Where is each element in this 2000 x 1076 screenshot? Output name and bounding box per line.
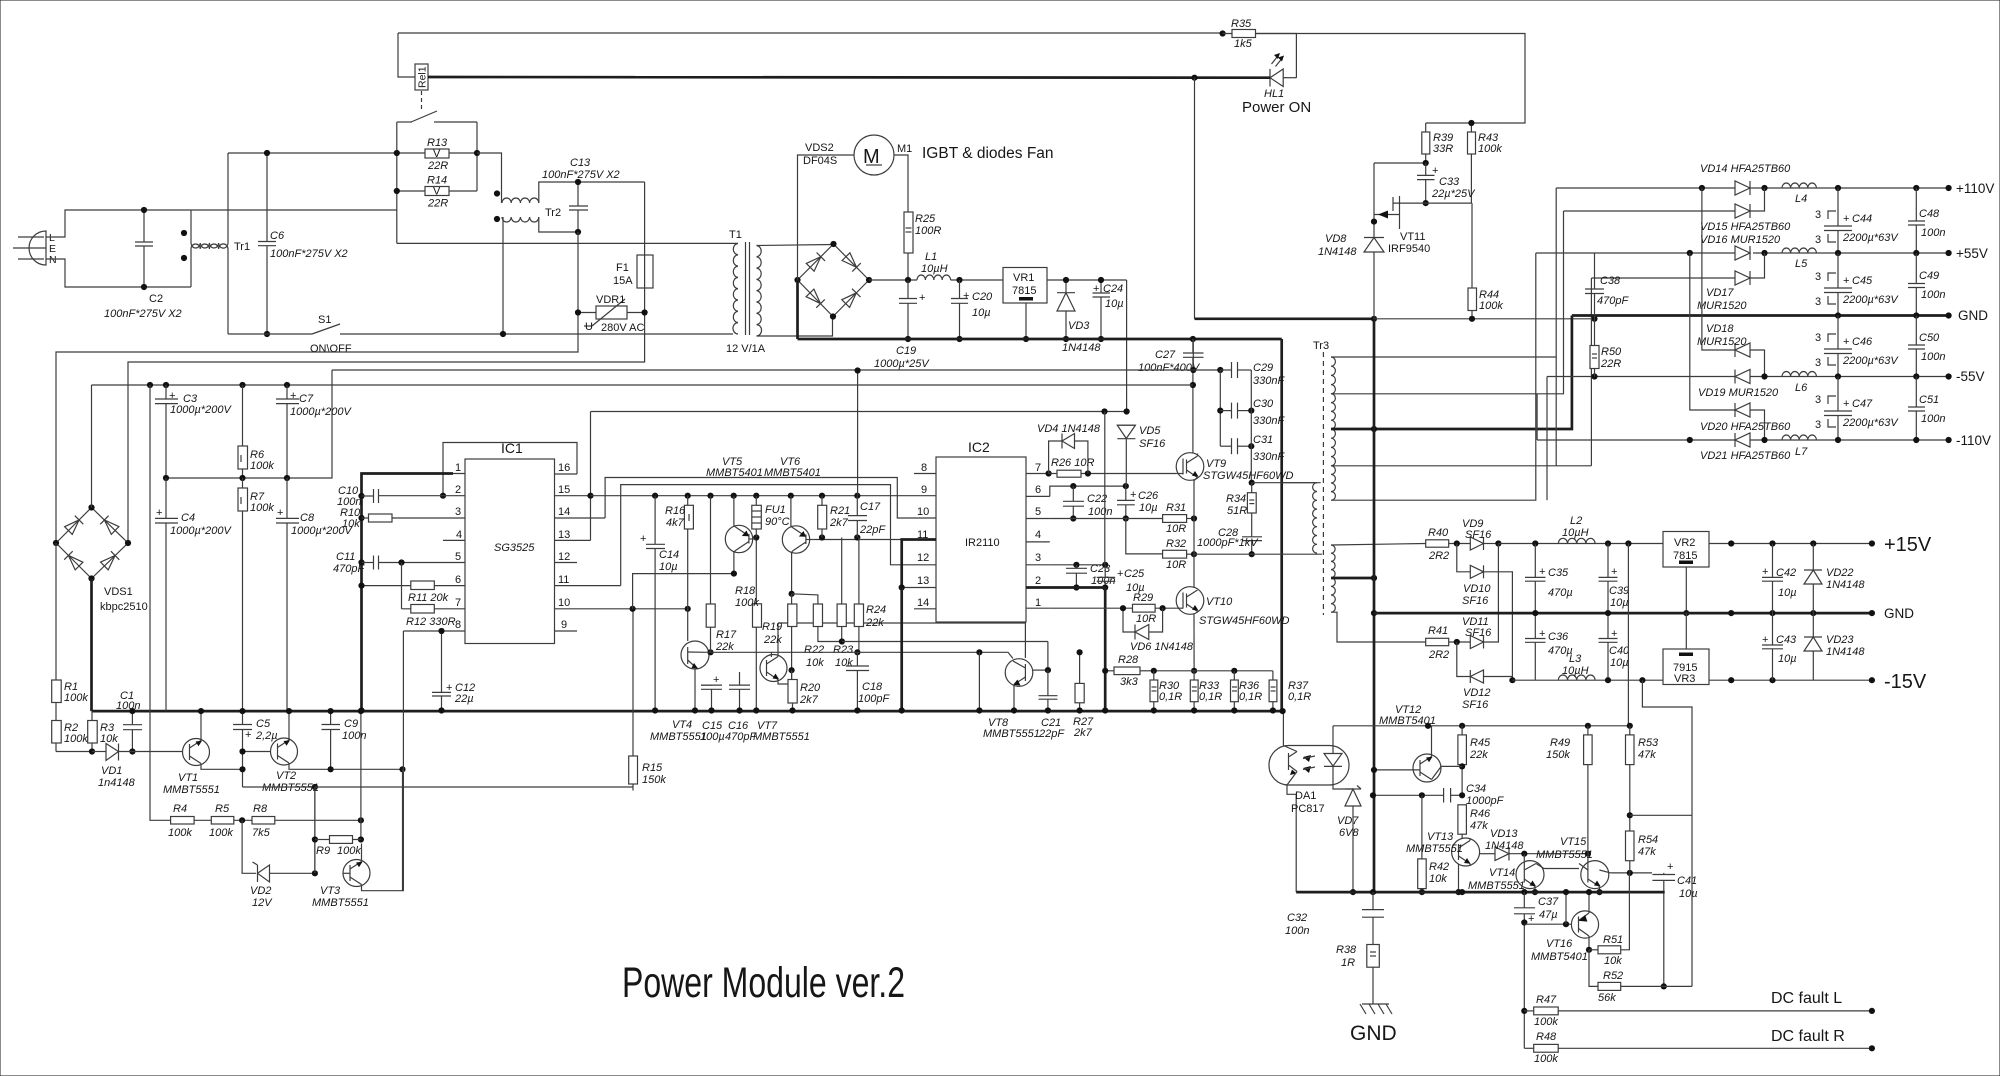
svg-text:C47: C47	[1852, 398, 1873, 410]
wire +12V rail y495.7 dots	[652, 493, 658, 499]
svg-text:VT9: VT9	[1206, 458, 1226, 470]
wire mains L upper rail	[191, 153, 397, 210]
svg-text:1R: 1R	[1341, 957, 1355, 969]
svg-text:22µ: 22µ	[454, 693, 474, 705]
svg-text:R17: R17	[716, 629, 737, 641]
svg-text:VD5: VD5	[1139, 425, 1161, 437]
svg-text:1k5: 1k5	[1234, 38, 1253, 50]
LED HL1	[1264, 53, 1296, 100]
svg-text:FU1: FU1	[765, 504, 786, 516]
wire R32 node to Tr3 primary bottom	[1194, 553, 1322, 555]
transistor VT16	[1524, 889, 1598, 963]
svg-text:DA1: DA1	[1295, 790, 1316, 802]
svg-text:VDS1: VDS1	[104, 586, 133, 598]
capacitor C22	[1063, 486, 1112, 522]
svg-text:13: 13	[917, 575, 929, 587]
capacitor C18	[846, 652, 890, 713]
svg-text:1000µ*200V: 1000µ*200V	[170, 525, 232, 537]
varistor VDR1	[575, 294, 648, 334]
IGBT VT9	[1176, 453, 1293, 482]
svg-text:S1: S1	[318, 314, 331, 326]
optocoupler DA1 PC817	[1269, 746, 1349, 816]
svg-text:C26: C26	[1138, 490, 1159, 502]
svg-text:4k7: 4k7	[666, 517, 685, 529]
svg-text:1N4148: 1N4148	[1062, 342, 1101, 354]
svg-text:22pF: 22pF	[859, 524, 886, 536]
svg-text:R48: R48	[1536, 1031, 1557, 1043]
IC1 pin stubs left	[362, 474, 466, 632]
svg-text:R52: R52	[1603, 970, 1623, 982]
diode VD23	[1804, 613, 1865, 680]
svg-text:VD6 1N4148: VD6 1N4148	[1130, 641, 1194, 653]
svg-text:2200µ*63V: 2200µ*63V	[1842, 355, 1899, 367]
svg-text:Tr3: Tr3	[1313, 340, 1329, 352]
svg-text:GND: GND	[1350, 1022, 1397, 1045]
svg-text:+: +	[169, 390, 175, 402]
svg-text:10µ: 10µ	[1610, 657, 1629, 669]
wire DA1 emitter down	[1287, 785, 1296, 794]
transistor VT7	[753, 623, 810, 743]
svg-text:+: +	[290, 390, 296, 402]
svg-text:C50: C50	[1919, 332, 1940, 344]
svg-text:C48: C48	[1919, 208, 1940, 220]
svg-text:C38: C38	[1600, 275, 1621, 287]
wire Tr3 secondary center tap thick	[1331, 316, 1572, 430]
svg-text:VDS2: VDS2	[805, 142, 834, 154]
wire R22/R23 bottoms to VT8 collector	[842, 641, 1048, 643]
svg-text:Rel1: Rel1	[417, 66, 429, 88]
diode VD4	[1037, 423, 1101, 474]
svg-text:C41: C41	[1677, 875, 1697, 887]
diode VD12	[1457, 642, 1516, 711]
transistor VT6	[782, 496, 813, 594]
resistor R46	[1458, 805, 1491, 839]
svg-text:14: 14	[917, 597, 929, 609]
transformer Tr2 (common-mode choke)	[494, 190, 561, 222]
wire thick link to GND vertical	[1195, 317, 1375, 320]
svg-text:PC817: PC817	[1291, 803, 1325, 815]
wire C11 node to pin7	[401, 563, 403, 609]
svg-text:+: +	[1843, 213, 1849, 225]
svg-text:7: 7	[1035, 462, 1041, 474]
transistor VT3	[312, 631, 403, 909]
diode VD8	[1318, 233, 1384, 319]
wire +55V rail	[1536, 252, 1949, 254]
svg-text:4: 4	[1035, 529, 1041, 541]
svg-text:10µH: 10µH	[921, 263, 948, 275]
svg-text:Power ON: Power ON	[1242, 99, 1311, 116]
svg-text:R13: R13	[427, 137, 448, 149]
capacitor C1	[116, 690, 142, 755]
svg-text:R34: R34	[1226, 493, 1246, 505]
svg-text:R4: R4	[173, 803, 187, 815]
wire Tr3 secondary tap4	[1331, 278, 1591, 466]
svg-text:VD2: VD2	[250, 885, 271, 897]
resistor R7	[238, 478, 274, 711]
svg-text:+: +	[1130, 489, 1136, 501]
svg-text:IC2: IC2	[968, 439, 990, 455]
svg-text:150k: 150k	[642, 774, 666, 786]
svg-text:MUR1520: MUR1520	[1697, 336, 1747, 348]
capacitor C20	[951, 280, 993, 342]
inductor L4	[1782, 183, 1816, 205]
wire C5 to VD2 row	[243, 787, 315, 873]
svg-text:MMBT5551: MMBT5551	[262, 782, 319, 794]
svg-text:0,1R: 0,1R	[1199, 691, 1222, 703]
transistor VT4	[650, 641, 714, 743]
transistor VT14	[1468, 854, 1579, 896]
svg-text:IRF9540: IRF9540	[1388, 243, 1430, 255]
capacitor C23	[1066, 563, 1115, 591]
svg-text:C42: C42	[1776, 567, 1796, 579]
wire -15V rail	[1512, 679, 1872, 681]
svg-text:R15: R15	[642, 762, 663, 774]
svg-text:+: +	[245, 729, 251, 741]
svg-text:V: V	[433, 148, 441, 160]
resistor R35	[1220, 18, 1256, 50]
svg-text:VD3: VD3	[1068, 320, 1090, 332]
resistor R14	[394, 175, 477, 210]
svg-text:R22: R22	[804, 644, 824, 656]
svg-text:22R: 22R	[1600, 358, 1621, 370]
regulator VR3 7915	[1663, 613, 1709, 685]
svg-text:R50: R50	[1601, 346, 1622, 358]
resistor R37	[1269, 671, 1311, 714]
svg-text:VDR1: VDR1	[596, 294, 625, 306]
svg-text:100k: 100k	[1534, 1053, 1558, 1065]
wire DA1 emitter to protection rail	[1295, 794, 1297, 892]
wire +15 riser to protection rail	[1627, 544, 1629, 727]
svg-text:47k: 47k	[1638, 846, 1656, 858]
svg-text:MUR1520: MUR1520	[1697, 300, 1747, 312]
svg-text:4: 4	[456, 529, 462, 541]
resistor R36	[1231, 671, 1263, 714]
diode VD14	[1700, 163, 1791, 195]
svg-text:C37: C37	[1538, 896, 1559, 908]
diode VD19	[1698, 370, 1779, 400]
resistor R2	[52, 703, 89, 752]
diode VD5	[1117, 425, 1166, 486]
svg-text:R9: R9	[316, 845, 330, 857]
svg-text:5: 5	[1035, 506, 1041, 518]
svg-text:470pF: 470pF	[333, 563, 365, 575]
resistor R22	[792, 594, 842, 669]
svg-text:10R: 10R	[1166, 559, 1186, 571]
wire Tr2 leads	[503, 182, 645, 334]
svg-text:+55V: +55V	[1956, 246, 1988, 261]
svg-text:2k7: 2k7	[829, 517, 849, 529]
diode VD18	[1697, 188, 1765, 377]
svg-text:C34: C34	[1466, 783, 1486, 795]
svg-text:10µ: 10µ	[1778, 653, 1797, 665]
svg-text:100n: 100n	[1285, 925, 1309, 937]
svg-text:10: 10	[917, 506, 929, 518]
svg-text:9: 9	[921, 484, 927, 496]
svg-text:VR2: VR2	[1674, 537, 1695, 549]
svg-text:0,1R: 0,1R	[1288, 691, 1311, 703]
wire M1 right to R25	[894, 155, 908, 212]
wire R35 feed corner	[1223, 34, 1525, 124]
svg-text:VD20 HFA25TB60: VD20 HFA25TB60	[1700, 421, 1791, 433]
svg-text:+: +	[919, 292, 925, 304]
resistor R23	[833, 538, 854, 670]
wire bank to Tr2	[477, 153, 502, 203]
capacitor C27	[1138, 339, 1204, 385]
switch S1	[310, 314, 352, 355]
capacitor C17	[848, 496, 886, 538]
capacitor C7	[276, 385, 352, 478]
svg-text:10k: 10k	[835, 657, 853, 669]
wire VDS1 minus thick to GND bus	[90, 579, 93, 712]
capacitor C19	[874, 280, 930, 370]
svg-text:+: +	[1539, 566, 1545, 578]
svg-text:R5: R5	[215, 803, 230, 815]
IC2 right pin stubs	[1026, 474, 1050, 609]
svg-text:1000pF: 1000pF	[1466, 795, 1505, 807]
wire thick relay line y77	[428, 76, 1270, 79]
svg-text:VT15: VT15	[1560, 836, 1587, 848]
resistor R11	[408, 581, 449, 604]
svg-text:100n: 100n	[116, 700, 140, 712]
diode VD22	[1804, 544, 1865, 614]
relay switch contact	[397, 111, 477, 122]
svg-text:VD22: VD22	[1826, 567, 1854, 579]
svg-text:22pF: 22pF	[1038, 728, 1065, 740]
resistor R4	[168, 803, 194, 839]
diode VD1	[92, 744, 183, 790]
svg-text:R25: R25	[915, 213, 936, 225]
svg-text:1000pF*1kV: 1000pF*1kV	[1197, 537, 1259, 549]
wire C13 bottom to lower-left feeder	[56, 232, 578, 543]
wire riser tap -55	[1546, 377, 1548, 501]
diode VD15	[1564, 188, 1792, 233]
svg-text:+: +	[1093, 283, 1099, 295]
svg-text:C24: C24	[1103, 283, 1123, 295]
svg-text:+: +	[640, 533, 646, 545]
mains plug	[13, 231, 46, 265]
inductor L2	[1558, 515, 1595, 544]
svg-text:47k: 47k	[1638, 749, 1656, 761]
wire y318 thin continuation to R44/R50	[1374, 318, 1595, 320]
capacitor C2	[104, 207, 182, 320]
resistor R20	[788, 670, 821, 713]
wire neutral bottom rail to T1	[228, 333, 733, 335]
resistor R27	[1073, 649, 1094, 739]
zener VD7	[1333, 785, 1361, 895]
svg-text:Tr1: Tr1	[234, 241, 250, 253]
svg-text:C30: C30	[1253, 398, 1274, 410]
diode VD21	[1700, 433, 1791, 462]
svg-text:VD15 HFA25TB60: VD15 HFA25TB60	[1700, 221, 1791, 233]
wire VT8 ground drop	[978, 652, 980, 710]
resistor R30	[1150, 671, 1182, 714]
capacitor C45	[1815, 253, 1899, 316]
svg-text:1: 1	[455, 462, 461, 474]
capacitor C4	[155, 478, 232, 711]
wire +12 feed to driver rail	[857, 371, 859, 496]
svg-text:R8: R8	[253, 803, 268, 815]
svg-text:3: 3	[1035, 552, 1041, 564]
svg-text:100nF*275V X2: 100nF*275V X2	[270, 248, 348, 260]
wire R35 right over to HL1	[1256, 34, 1297, 78]
resistor R16	[665, 496, 693, 641]
svg-text:1N4148: 1N4148	[1485, 840, 1524, 852]
capacitor C11	[333, 551, 405, 575]
svg-text:MMBT5401: MMBT5401	[706, 467, 763, 479]
resistor R34	[1226, 483, 1256, 517]
svg-text:33R: 33R	[1433, 143, 1453, 155]
svg-text:SF16: SF16	[1139, 438, 1166, 450]
wire L1 to VR1	[951, 279, 1003, 281]
svg-text:L2: L2	[1570, 515, 1582, 527]
resistor R40	[1426, 527, 1471, 562]
svg-text:12: 12	[917, 552, 929, 564]
svg-text:10µ: 10µ	[659, 561, 678, 573]
svg-text:SF16: SF16	[1465, 529, 1492, 541]
resistor R47	[1524, 994, 1875, 1028]
resistor R33	[1190, 671, 1222, 714]
capacitor C16	[725, 672, 757, 743]
wire pin1 LO line	[1050, 607, 1133, 609]
svg-text:MMBT5551: MMBT5551	[312, 897, 369, 909]
wire Tr3 aux center tap thick	[1331, 577, 1374, 580]
inductor L5	[1782, 248, 1816, 270]
svg-text:L1: L1	[925, 251, 937, 263]
svg-text:+: +	[1762, 566, 1768, 578]
inductor L3	[1558, 653, 1595, 680]
resistor R49	[1546, 726, 1592, 854]
svg-text:IGBT & diodes Fan: IGBT & diodes Fan	[922, 145, 1054, 162]
wire R13/R14 bank verticals	[397, 122, 477, 243]
capacitor C34	[1370, 783, 1505, 807]
capacitor C40	[1599, 613, 1631, 680]
svg-text:15: 15	[558, 484, 570, 496]
svg-text:100nF*275V X2: 100nF*275V X2	[542, 169, 620, 181]
capacitor C21	[1038, 670, 1065, 740]
svg-text:100k: 100k	[168, 827, 192, 839]
svg-text:56k: 56k	[1598, 992, 1616, 1004]
svg-text:VD4 1N4148: VD4 1N4148	[1037, 423, 1101, 435]
wire VD8 drain vertical	[1194, 78, 1196, 319]
svg-text:R45: R45	[1470, 737, 1491, 749]
wire DA1 LED anode to +15 rail	[1332, 726, 1334, 746]
wire pin2-pin16 feedback box	[443, 443, 577, 496]
svg-text:10k: 10k	[100, 733, 118, 745]
svg-text:100µ: 100µ	[700, 731, 725, 743]
svg-text:100k: 100k	[1478, 143, 1502, 155]
resistor R39	[1422, 123, 1453, 163]
svg-text:1000µ*200V: 1000µ*200V	[290, 406, 352, 418]
svg-text:F1: F1	[616, 262, 629, 274]
svg-text:100nF*275V X2: 100nF*275V X2	[104, 308, 182, 320]
wire VDS1 plus to HV bus	[91, 385, 93, 508]
wire VT10 emitter to shunt bus	[1193, 614, 1195, 671]
svg-text:2k7: 2k7	[799, 694, 819, 706]
svg-text:R53: R53	[1638, 737, 1659, 749]
wire pin15 rail to IC2 pin9	[591, 495, 915, 497]
capacitor C26	[1117, 486, 1159, 522]
resistor R32	[1163, 538, 1198, 571]
wire +12 line y370	[332, 369, 1220, 371]
svg-text:R12 330R: R12 330R	[406, 616, 456, 628]
svg-text:DC fault L: DC fault L	[1771, 990, 1842, 1007]
wire R53 node loop	[1630, 727, 1692, 986]
svg-text:R40: R40	[1428, 527, 1449, 539]
svg-text:470pF: 470pF	[1597, 295, 1629, 307]
resistor R15	[315, 608, 666, 791]
resistor R13	[394, 137, 480, 172]
capacitor C3	[155, 385, 232, 478]
svg-text:STGW45HF60WD: STGW45HF60WD	[1199, 615, 1290, 627]
svg-text:22k: 22k	[865, 617, 884, 629]
bridge rectifier VDS2	[794, 142, 872, 320]
svg-text:MMBT5551: MMBT5551	[1468, 880, 1525, 892]
wire +12V link line y411	[591, 411, 1127, 413]
capacitor C38	[1585, 253, 1629, 346]
capacitor C15	[700, 674, 725, 743]
resistor R38	[1336, 944, 1379, 1004]
svg-text:-110V: -110V	[1956, 433, 1991, 448]
resistor R31	[1163, 502, 1198, 535]
svg-text:1000µ*200V: 1000µ*200V	[170, 404, 232, 416]
svg-text:R24: R24	[866, 604, 886, 616]
svg-text:11: 11	[558, 574, 569, 586]
svg-text:C33: C33	[1439, 176, 1460, 188]
wire x1193 link bus to C29 line	[1192, 339, 1194, 370]
resistor R1	[52, 543, 89, 704]
svg-text:R23: R23	[833, 644, 854, 656]
IC1 pin stubs right	[555, 474, 633, 631]
wire Tr3 secondary tap2	[1331, 211, 1564, 394]
transformer Tr1 (common-mode choke)	[181, 230, 250, 261]
svg-text:330nF: 330nF	[1253, 451, 1285, 463]
wire -55V rail	[1547, 376, 1949, 378]
svg-text:R28: R28	[1118, 654, 1139, 666]
svg-text:6: 6	[1035, 484, 1041, 496]
wire HV+ bus y385	[92, 384, 1193, 386]
svg-text:7: 7	[455, 597, 461, 609]
svg-text:Tr2: Tr2	[545, 207, 561, 219]
diode VD16	[1700, 234, 1781, 260]
svg-text:C11: C11	[336, 551, 355, 563]
svg-text:15A: 15A	[613, 275, 633, 287]
wire base line y751.5	[56, 751, 92, 753]
wire DA1 collector to GND bus end	[1282, 711, 1284, 745]
relay Rel1 coil	[398, 33, 429, 90]
wire VS node to R32	[1126, 519, 1163, 554]
svg-text:100k: 100k	[64, 692, 88, 704]
svg-text:MMBT5401: MMBT5401	[764, 467, 821, 479]
svg-text:100pF: 100pF	[858, 693, 890, 705]
wire -110V rail	[1537, 439, 1949, 441]
svg-text:Power Module ver.2: Power Module ver.2	[622, 959, 905, 1007]
svg-text:22R: 22R	[427, 198, 448, 210]
svg-text:VT1: VT1	[178, 772, 198, 784]
resistor R42	[1418, 795, 1449, 895]
svg-text:C36: C36	[1548, 631, 1569, 643]
svg-text:+: +	[1432, 165, 1438, 177]
capacitor C6	[258, 150, 348, 337]
capacitor C41	[1652, 861, 1697, 990]
svg-text:3: 3	[1815, 271, 1821, 283]
wire -15 tap down to VR3 input region	[1642, 680, 1692, 727]
capacitor C42	[1762, 544, 1797, 614]
svg-text:L5: L5	[1795, 258, 1808, 270]
svg-text:100R: 100R	[915, 225, 941, 237]
svg-text:1: 1	[1035, 597, 1041, 609]
resistor R21	[818, 496, 850, 538]
resistor R28	[1102, 654, 1154, 688]
